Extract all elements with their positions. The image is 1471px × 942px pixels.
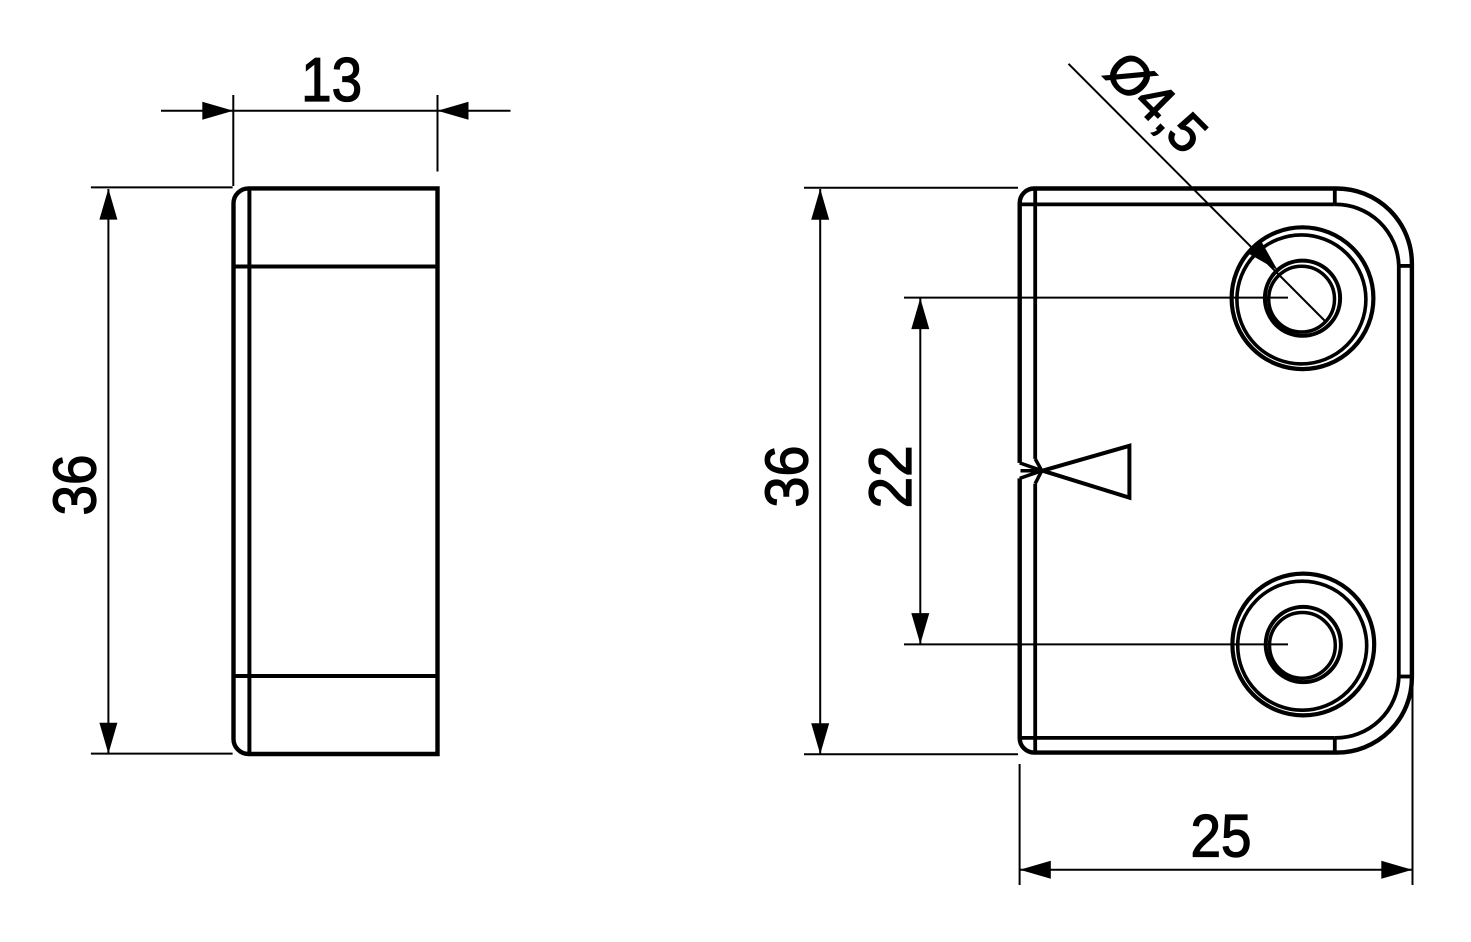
dimension 25 arrowhead left [1020, 861, 1051, 879]
dimension 25 extension line left [1019, 764, 1021, 885]
front view top tangent edge [1021, 202, 1335, 206]
svg-text:36: 36 [754, 446, 821, 508]
svg-text:Ø4,5: Ø4,5 [1094, 40, 1219, 165]
notch mid bar [1021, 469, 1042, 473]
top hole chamfer circle [1265, 261, 1340, 336]
dimension 22 arrowhead top [911, 298, 929, 329]
dimension 13 extension line right [437, 95, 439, 172]
dimension 13 arrowhead left [202, 102, 233, 120]
dimension 25 dimension line [1020, 869, 1413, 871]
side view bottom tangent edge [234, 674, 438, 678]
dimension 25 extension line right [1412, 679, 1414, 885]
svg-text:36: 36 [42, 455, 109, 516]
dimension 36 left extension line bottom [91, 753, 233, 755]
front view left tangent edge lower [1033, 484, 1037, 752]
dimension 36 right arrowhead top [811, 189, 829, 220]
front view top-right inner arc [1335, 204, 1399, 266]
dimension 13 arrowhead right [438, 102, 469, 120]
top hole counterbore inner circle [1237, 235, 1366, 364]
front view left tangent edge upper [1033, 190, 1037, 459]
front view bottom-right inner arc [1335, 677, 1399, 738]
bottom hole counterbore outer circle [1232, 574, 1374, 716]
dimension 13 extension line left [232, 95, 234, 186]
svg-text:22: 22 [857, 445, 924, 508]
dimension 36 left dimension line [107, 189, 109, 753]
notch upper outer diagonal [1020, 463, 1042, 471]
dimension 22 dimension line [919, 298, 921, 644]
front view outer outline [1020, 188, 1412, 752]
direction triangle marker [1043, 446, 1130, 498]
dimension 25 arrowhead right [1381, 861, 1412, 879]
dimension 36 right arrowhead bottom [811, 723, 829, 754]
diameter leader line [1069, 64, 1327, 322]
dimension 36 right extension line bottom [804, 753, 1018, 755]
dimension 36 left extension line top [91, 186, 233, 188]
dimension 22 extension line top [904, 297, 1288, 299]
svg-text:13: 13 [301, 46, 362, 115]
dimension 36 right extension line top [804, 187, 1018, 189]
front view right tangent edge [1397, 266, 1401, 677]
dimension 36 left arrowhead bottom [99, 723, 117, 754]
top hole counterbore outer circle [1232, 227, 1374, 369]
top hole bore circle [1269, 266, 1335, 332]
notch lower outer diagonal [1020, 471, 1042, 479]
dimension 36 left arrowhead top [99, 189, 117, 220]
bottom hole bore circle [1270, 613, 1336, 679]
dimension 13 dimension line [161, 110, 511, 112]
diameter leader arrowhead [1248, 241, 1277, 270]
bottom hole chamfer circle [1266, 607, 1341, 682]
side view top tangent edge [234, 265, 438, 269]
front view bottom tangent edge [1021, 736, 1335, 740]
notch lower inner diagonal [1035, 471, 1042, 484]
front view right tangent tick top [1399, 264, 1412, 268]
front view right tangent tick bottom [1399, 675, 1412, 679]
front view top-right tangent tick [1333, 189, 1337, 205]
front view bottom-right tangent tick [1333, 738, 1337, 753]
notch upper inner diagonal [1035, 459, 1042, 471]
dimension 36 right dimension line [819, 189, 821, 754]
bottom hole counterbore inner circle [1238, 581, 1367, 710]
side view outer outline [234, 188, 438, 754]
dimension 22 arrowhead bottom [911, 613, 929, 644]
side view left tangent edge [247, 188, 251, 754]
svg-text:25: 25 [1191, 803, 1252, 870]
dimension 22 extension line bottom [904, 643, 1288, 645]
